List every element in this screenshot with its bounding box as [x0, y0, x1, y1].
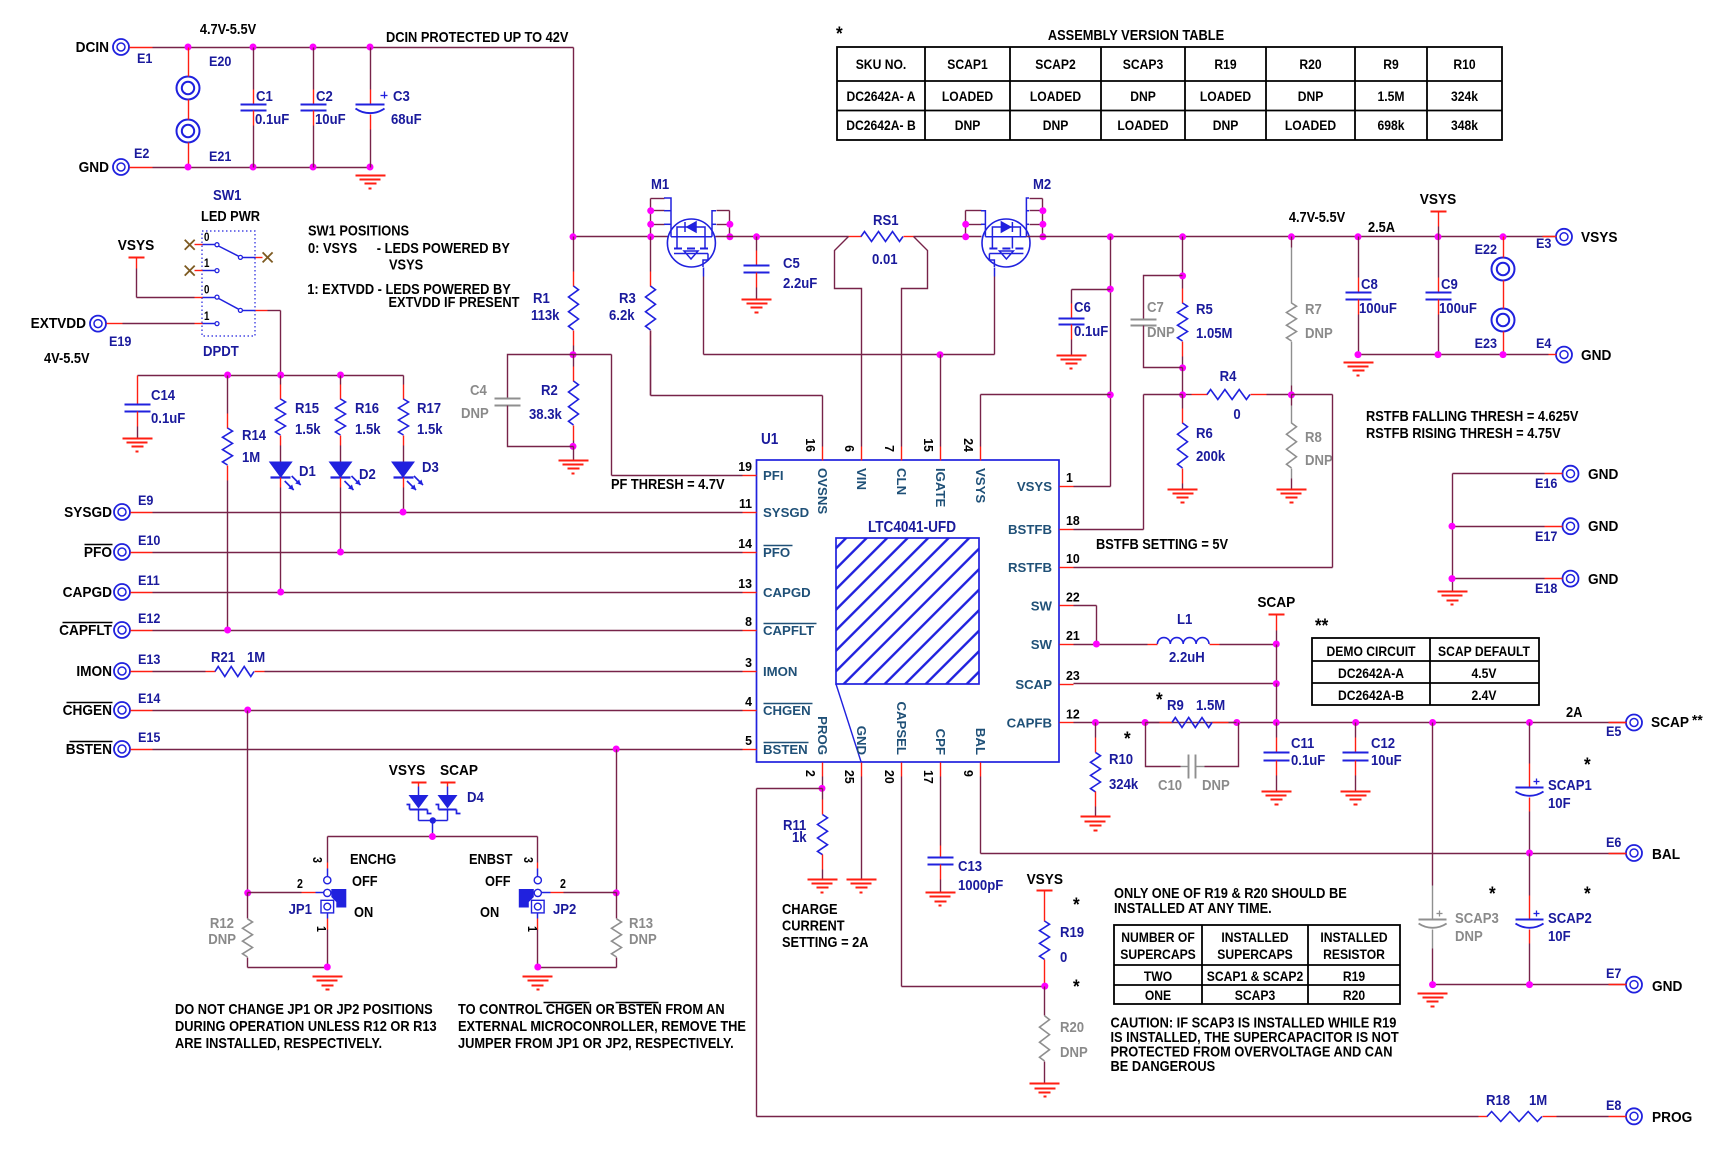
svg-text:100uF: 100uF	[1359, 299, 1397, 316]
junction GND-C2	[310, 164, 317, 171]
svg-text:ASSEMBLY VERSION TABLE: ASSEMBLY VERSION TABLE	[1048, 26, 1224, 43]
ic U1 pin 13 CAPGD	[743, 592, 757, 594]
svg-text:DNP: DNP	[1043, 117, 1069, 133]
capacitor C4 DNP	[508, 355, 574, 399]
svg-text:INSTALLED AT ANY TIME.: INSTALLED AT ANY TIME.	[1114, 899, 1272, 916]
svg-text:DO NOT CHANGE JP1 OR JP2 POSIT: DO NOT CHANGE JP1 OR JP2 POSITIONS	[175, 1000, 433, 1017]
svg-text:E19: E19	[109, 333, 131, 349]
capacitor C10 DNP	[1146, 723, 1181, 767]
capacitor C1 0.1uF	[253, 48, 255, 90]
svg-text:*: *	[1584, 754, 1592, 775]
svg-text:2.2uH: 2.2uH	[1169, 648, 1205, 665]
wire IGATE horizontal	[704, 354, 995, 356]
svg-text:LTC4041-UFD: LTC4041-UFD	[868, 519, 956, 536]
svg-text:E20: E20	[209, 53, 231, 69]
terminal E16 GND	[1563, 466, 1579, 482]
junction JP1 pin2	[244, 889, 251, 896]
svg-text:R6: R6	[1196, 424, 1213, 441]
svg-text:E22: E22	[1475, 241, 1497, 257]
terminal E9 SYSGD	[114, 504, 130, 520]
wire LED power bus	[138, 375, 404, 377]
svg-text:10F: 10F	[1548, 794, 1571, 811]
junction CAPFB-C12	[1352, 719, 1359, 726]
wire RSTFB riser	[1074, 567, 1333, 569]
resistor R17 1.5k	[403, 376, 405, 385]
wire IMON	[265, 671, 743, 673]
terminal E1 DCIN	[113, 39, 129, 55]
svg-text:DNP: DNP	[1305, 324, 1333, 341]
resistor R13 DNP	[616, 893, 618, 919]
junction DCIN-E20	[185, 44, 192, 51]
capacitor C8 100uF	[1358, 237, 1360, 278]
junction PFO-D2	[337, 549, 344, 556]
svg-text:SCAP2: SCAP2	[1035, 56, 1075, 72]
svg-text:3: 3	[745, 656, 752, 670]
svg-text:VSYS: VSYS	[973, 468, 988, 503]
svg-text:R20: R20	[1299, 56, 1321, 72]
mosfet M2 body	[982, 219, 1030, 267]
svg-text:SCAP2: SCAP2	[1548, 909, 1592, 926]
ground below R2	[573, 447, 575, 461]
svg-text:0: 0	[204, 231, 209, 244]
ic U1 pin 8 CAPFLT	[743, 630, 757, 632]
wire SW pin21 to L1	[1074, 644, 1148, 646]
wire D4 to jumpers	[432, 833, 434, 837]
ic U1 pin 4 CHGEN	[743, 710, 757, 712]
junction GND-SCAP2	[1526, 981, 1533, 988]
junction M2 left 1	[962, 221, 969, 228]
capacitor C3 68uF polarized	[370, 48, 372, 90]
svg-text:DNP: DNP	[1130, 88, 1156, 104]
svg-text:348k: 348k	[1451, 117, 1479, 133]
switch SW1 pole1 throw	[219, 246, 239, 256]
svg-text:M1: M1	[651, 175, 670, 192]
resistor R8 DNP	[1291, 395, 1293, 406]
junction E17 bus	[1449, 523, 1456, 530]
wire DCIN drop to rail	[573, 48, 575, 237]
ground below C12	[1341, 791, 1371, 793]
svg-text:2A: 2A	[1566, 703, 1582, 720]
capacitor C11 0.1uF	[1276, 723, 1278, 738]
svg-text:R15: R15	[295, 399, 319, 416]
svg-text:18: 18	[1066, 514, 1080, 528]
table DEMO CIRCUIT	[1312, 638, 1539, 705]
svg-text:200k: 200k	[1196, 447, 1225, 464]
wire main rail M1 section	[574, 236, 668, 238]
junction JP2 pin2	[613, 889, 620, 896]
capacitor C5 2.2uF	[756, 237, 758, 251]
resistor R18 1M	[1479, 1116, 1488, 1118]
svg-text:VSYS: VSYS	[1017, 479, 1052, 494]
svg-text:PROG: PROG	[1652, 1109, 1692, 1126]
junction GND-SCAP3	[1429, 981, 1436, 988]
svg-text:38.3k: 38.3k	[529, 405, 562, 422]
ground below C11	[1262, 791, 1292, 793]
svg-text:6.2k: 6.2k	[609, 306, 635, 323]
svg-text:ON: ON	[354, 903, 373, 920]
mosfet M2 right pins	[1042, 199, 1044, 237]
wire R5 to node A	[1182, 368, 1184, 395]
svg-text:R19: R19	[1060, 923, 1084, 940]
terminal E7 GND	[1626, 977, 1642, 993]
svg-text:15: 15	[921, 438, 935, 452]
junction CAPFB-SCAP3	[1429, 719, 1436, 726]
svg-text:1: 1	[314, 926, 328, 932]
svg-text:BSTFB: BSTFB	[1008, 522, 1052, 537]
svg-text:R10: R10	[1109, 750, 1133, 767]
junction SW pins	[1093, 641, 1100, 648]
junction VSYS-C6	[1107, 286, 1114, 293]
svg-text:1: 1	[204, 257, 209, 270]
svg-text:BAL: BAL	[1652, 846, 1680, 863]
svg-text:E16: E16	[1535, 475, 1557, 491]
terminal E2 GND	[113, 159, 129, 175]
svg-text:R19: R19	[1343, 968, 1365, 984]
svg-text:DC2642A-B: DC2642A-B	[1338, 687, 1404, 703]
svg-text:LOADED: LOADED	[1030, 88, 1081, 104]
svg-text:SETTING = 2A: SETTING = 2A	[782, 933, 868, 950]
svg-text:VSYS: VSYS	[1027, 871, 1064, 888]
ic U1 pin 21 SW	[1060, 644, 1074, 646]
svg-text:JP1: JP1	[289, 900, 313, 917]
svg-text:1.5k: 1.5k	[417, 420, 443, 437]
svg-text:R10: R10	[1453, 56, 1475, 72]
svg-text:0.1uF: 0.1uF	[151, 409, 185, 426]
svg-text:*: *	[1489, 883, 1497, 904]
svg-text:4.5V: 4.5V	[1472, 665, 1497, 681]
wire DCIN rail	[130, 47, 153, 49]
ic U1 hatched region	[836, 538, 979, 684]
switch SW1 pole2 throw	[219, 298, 239, 309]
svg-text:DPDT: DPDT	[203, 342, 239, 359]
wire JP1 pin2	[248, 892, 302, 894]
svg-text:DNP: DNP	[1455, 927, 1483, 944]
svg-text:E9: E9	[138, 492, 153, 508]
svg-text:PFO: PFO	[763, 545, 790, 560]
svg-text:DNP: DNP	[955, 117, 981, 133]
junction DCIN-C1	[250, 44, 257, 51]
terminal E12 CAPFLT	[114, 622, 130, 638]
wire CAPGD	[153, 592, 743, 594]
svg-text:4.7V-5.5V: 4.7V-5.5V	[1289, 208, 1346, 225]
svg-text:1.5k: 1.5k	[355, 420, 381, 437]
svg-text:SW1: SW1	[213, 186, 242, 203]
svg-text:*: *	[1584, 883, 1592, 904]
svg-text:GND: GND	[1588, 571, 1618, 588]
junction R2-C4-gnd	[570, 443, 577, 450]
svg-text:E8: E8	[1606, 1097, 1621, 1113]
junction rail-E22	[1500, 233, 1507, 240]
svg-text:BAL: BAL	[973, 728, 988, 755]
wire CAPSEL net	[901, 777, 903, 987]
wire rail M1 to RS1	[716, 236, 849, 238]
ic U1 pin 12 CAPFB	[1060, 722, 1074, 724]
switch SW1 pole1 position 1	[185, 266, 195, 276]
svg-text:DNP: DNP	[1213, 117, 1239, 133]
svg-text:E15: E15	[138, 729, 161, 745]
svg-text:**: **	[1315, 615, 1329, 636]
ground below C13	[926, 892, 956, 894]
mosfet M1 body	[667, 219, 715, 267]
ground below JP1	[313, 976, 343, 978]
turret E21	[177, 120, 200, 143]
resistor R2 38.3k	[573, 355, 575, 367]
svg-text:DEMO CIRCUIT: DEMO CIRCUIT	[1327, 643, 1416, 659]
svg-text:22: 22	[1066, 590, 1080, 604]
svg-text:CPF: CPF	[933, 729, 948, 755]
svg-text:R14: R14	[242, 426, 266, 443]
svg-text:BSTEN: BSTEN	[66, 741, 112, 758]
svg-text:EXTVDD: EXTVDD	[31, 315, 86, 332]
svg-text:21: 21	[1066, 629, 1080, 643]
svg-text:IMON: IMON	[76, 663, 112, 680]
ground below C6	[1057, 355, 1087, 357]
svg-text:RSTFB: RSTFB	[1008, 560, 1052, 575]
jumper JP2	[534, 877, 541, 884]
svg-text:CHGEN: CHGEN	[763, 703, 811, 718]
svg-text:OFF: OFF	[485, 872, 511, 889]
svg-text:3: 3	[310, 857, 324, 863]
svg-text:1: 1	[204, 310, 209, 323]
turret E23	[1492, 309, 1515, 332]
turret E22	[1492, 258, 1515, 281]
svg-text:R13: R13	[629, 914, 653, 931]
svg-text:0.1uF: 0.1uF	[1074, 322, 1108, 339]
svg-text:CAPFB: CAPFB	[1007, 716, 1052, 731]
junction rail-R5	[1179, 233, 1186, 240]
ground below R20	[1030, 1083, 1060, 1085]
ic U1 pin 11 SYSGD	[743, 512, 757, 514]
svg-text:U1: U1	[761, 431, 778, 448]
junction SYSGD-D3	[400, 509, 407, 516]
junction BSTEN-JP2	[613, 746, 620, 753]
svg-text:VSYS: VSYS	[389, 762, 426, 779]
junction gndrail-C8	[1355, 351, 1362, 358]
svg-text:1M: 1M	[242, 448, 260, 465]
ic U1 pin 9 BAL	[980, 763, 982, 777]
wire BSTEN to JP2	[616, 750, 618, 893]
junction CAPGD-D1	[277, 589, 284, 596]
svg-text:ON: ON	[480, 903, 499, 920]
svg-text:1k: 1k	[792, 828, 807, 845]
svg-text:BSTFB SETTING = 5V: BSTFB SETTING = 5V	[1096, 535, 1229, 552]
svg-text:4V-5.5V: 4V-5.5V	[44, 349, 90, 366]
svg-text:C1: C1	[256, 87, 273, 104]
svg-text:E7: E7	[1606, 965, 1621, 981]
switch SW1 pole2 position 0	[203, 297, 216, 299]
junction bus-R15	[277, 372, 284, 379]
svg-text:1.5k: 1.5k	[295, 420, 321, 437]
wire RS1 kelvin right CLN	[902, 237, 928, 447]
svg-text:CAPGD: CAPGD	[63, 584, 112, 601]
svg-text:*: *	[1124, 728, 1132, 749]
wire M2 gate to IGATE line	[994, 268, 996, 277]
svg-text:DNP: DNP	[1060, 1043, 1088, 1060]
svg-text:ARE INSTALLED, RESPECTIVELY.: ARE INSTALLED, RESPECTIVELY.	[175, 1034, 382, 1051]
ic U1 pin 5 BSTEN	[743, 749, 757, 751]
switch SW1 pole2 position 1	[203, 323, 216, 325]
svg-text:VIN: VIN	[854, 468, 869, 490]
svg-text:R19: R19	[1214, 56, 1236, 72]
svg-text:2.5A: 2.5A	[1368, 218, 1395, 235]
wire JP2 pin1 to ground	[537, 930, 539, 968]
svg-text:R8: R8	[1305, 428, 1322, 445]
ground below R8	[1277, 489, 1307, 491]
svg-text:0: 0	[1233, 405, 1241, 422]
svg-text:SCAP: SCAP	[440, 762, 478, 779]
ic U1 pin 18 BSTFB	[1060, 529, 1074, 531]
svg-text:324k: 324k	[1451, 88, 1479, 104]
svg-text:CAPGD: CAPGD	[763, 585, 811, 600]
svg-text:13: 13	[738, 577, 752, 591]
svg-text:DURING OPERATION UNLESS R12 OR: DURING OPERATION UNLESS R12 OR R13	[175, 1017, 437, 1034]
junction R1-R2	[570, 351, 577, 358]
capacitor C7 DNP	[1144, 276, 1183, 320]
wire GND pin25	[861, 777, 863, 880]
resistor R5 1.05M	[1182, 237, 1184, 276]
svg-text:0.1uF: 0.1uF	[255, 110, 289, 127]
svg-text:324k: 324k	[1109, 775, 1138, 792]
wire BSTFB riser	[1074, 529, 1144, 531]
svg-text:2.2uF: 2.2uF	[783, 274, 817, 291]
capacitor C6 0.1uF	[1072, 289, 1111, 291]
junction M2 right 1	[1039, 207, 1046, 214]
svg-text:E21: E21	[209, 148, 232, 164]
wire GND rail top-left	[130, 167, 153, 169]
svg-text:8: 8	[745, 615, 752, 629]
ground below pin25	[847, 879, 877, 881]
svg-text:SCAP DEFAULT: SCAP DEFAULT	[1438, 643, 1530, 659]
svg-text:C4: C4	[470, 381, 487, 398]
svg-text:PF THRESH = 4.7V: PF THRESH = 4.7V	[611, 475, 725, 492]
svg-text:BE DANGEROUS: BE DANGEROUS	[1111, 1057, 1216, 1074]
svg-text:C9: C9	[1441, 275, 1458, 292]
wire JP2 pin2	[564, 892, 617, 894]
svg-text:E4: E4	[1536, 335, 1552, 351]
svg-text:C13: C13	[958, 857, 982, 874]
svg-text:BSTEN: BSTEN	[763, 742, 808, 757]
svg-text:CAPFLT: CAPFLT	[59, 622, 112, 639]
junction rail-C9	[1435, 233, 1442, 240]
svg-text:ENCHG: ENCHG	[350, 850, 396, 867]
svg-text:SCAP3: SCAP3	[1455, 909, 1499, 926]
svg-text:11: 11	[739, 497, 752, 511]
svg-text:E10: E10	[138, 532, 160, 548]
svg-text:R2: R2	[541, 381, 558, 398]
svg-text:16: 16	[803, 438, 817, 452]
junction DCIN-C2	[310, 44, 317, 51]
svg-text:C3: C3	[393, 87, 410, 104]
inductor L1 2.2uH	[1148, 644, 1158, 646]
svg-text:19: 19	[738, 460, 752, 474]
resistor R11 1k	[822, 789, 824, 800]
wire RS1 to M2	[914, 236, 982, 238]
svg-text:DNP: DNP	[461, 404, 489, 421]
supercap SCAP2 10F	[1529, 854, 1531, 896]
terminal E17 GND	[1563, 518, 1579, 534]
svg-text:E18: E18	[1535, 580, 1557, 596]
terminal E15 BSTEN	[114, 741, 130, 757]
resistor R7 DNP	[1291, 237, 1293, 248]
junction M1 right 1	[726, 221, 733, 228]
wire R3 to OVSNS	[650, 331, 652, 396]
svg-text:R5: R5	[1196, 300, 1213, 317]
svg-text:*: *	[1073, 976, 1081, 997]
svg-text:C2: C2	[316, 87, 333, 104]
svg-text:VSYS: VSYS	[118, 237, 155, 254]
junction node A	[1179, 391, 1186, 398]
svg-text:R3: R3	[619, 289, 636, 306]
svg-text:E2: E2	[134, 145, 149, 161]
junction R5-C7 bottom	[1179, 364, 1186, 371]
svg-text:6: 6	[842, 445, 856, 452]
svg-text:RSTFB RISING THRESH = 4.75V: RSTFB RISING THRESH = 4.75V	[1366, 424, 1561, 441]
svg-text:ONE: ONE	[1145, 987, 1171, 1003]
svg-text:SW: SW	[1031, 598, 1053, 613]
svg-text:PFI: PFI	[763, 468, 784, 483]
svg-text:C5: C5	[783, 254, 800, 271]
junction bus-R14	[224, 372, 231, 379]
junction M1 left 2	[647, 221, 654, 228]
svg-text:E5: E5	[1606, 723, 1622, 739]
svg-text:0: 0	[1060, 948, 1068, 965]
svg-text:GND: GND	[79, 159, 109, 176]
wire EXTVDD to SW1 pole2 pos1	[107, 323, 123, 325]
svg-text:SCAP3: SCAP3	[1235, 987, 1275, 1003]
table ASSEMBLY VERSION	[837, 47, 1502, 140]
svg-text:EXTVDD IF PRESENT: EXTVDD IF PRESENT	[389, 293, 520, 310]
svg-text:TWO: TWO	[1144, 968, 1172, 984]
svg-text:2: 2	[297, 877, 303, 891]
svg-text:- LEDS POWERED BY: - LEDS POWERED BY	[377, 239, 511, 256]
svg-text:0.01: 0.01	[872, 250, 898, 267]
wire U1 pin24 VSYS riser	[980, 395, 982, 447]
svg-text:ENBST: ENBST	[469, 850, 513, 867]
wire BSTEN	[153, 749, 743, 751]
ground below C8	[1344, 362, 1374, 364]
wire GND rail bottom right	[1359, 354, 1549, 356]
switch SW1 pole1 position 0	[185, 240, 195, 250]
svg-text:SCAP: SCAP	[1257, 594, 1295, 611]
svg-text:PROG: PROG	[815, 716, 830, 755]
svg-text:RS1: RS1	[873, 211, 899, 228]
ground below R11	[808, 879, 838, 881]
svg-text:SYSGD: SYSGD	[64, 504, 112, 521]
supercap SCAP1 10F	[1529, 723, 1531, 764]
svg-text:M2: M2	[1033, 175, 1052, 192]
svg-text:R9: R9	[1167, 696, 1184, 713]
junction node B	[1288, 391, 1295, 398]
svg-text:*: *	[1156, 689, 1164, 710]
junction BAL-SCAP2	[1526, 850, 1533, 857]
ic U1 pin 7 CLN	[901, 447, 903, 461]
wire rail M2 to E3	[1027, 236, 1557, 238]
svg-text:LOADED: LOADED	[1200, 88, 1251, 104]
svg-text:SKU NO.: SKU NO.	[856, 56, 907, 72]
svg-text:CLN: CLN	[894, 468, 909, 495]
svg-text:DNP: DNP	[1147, 323, 1175, 340]
junction M1 left 1	[647, 207, 654, 214]
wire SCAP pin23	[1074, 683, 1277, 685]
ic U1 pin 14 PFO	[743, 552, 757, 554]
svg-text:0: VSYS: 0: VSYS	[308, 239, 357, 256]
ic U1 pin 19 PFI	[743, 475, 757, 477]
svg-text:VSYS: VSYS	[1581, 229, 1618, 246]
svg-text:10uF: 10uF	[315, 110, 346, 127]
capacitor C12 10uF	[1355, 723, 1357, 738]
wire RS1 kelvin left VIN	[835, 237, 862, 447]
junction VSYS-pin24	[1107, 391, 1114, 398]
